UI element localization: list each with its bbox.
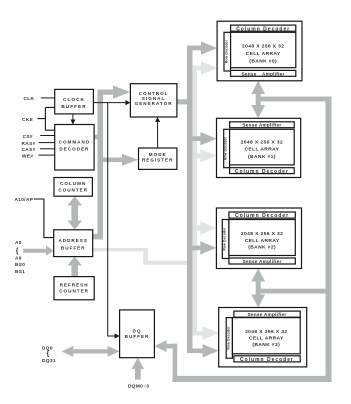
wire WE# input line [39, 155, 55, 156]
svg-text:Sense: Sense [242, 71, 257, 76]
svg-text:CLOCK: CLOCK [63, 97, 85, 102]
svg-text:RAS#: RAS# [22, 141, 36, 146]
svg-text:(BANK #2): (BANK #2) [248, 245, 276, 251]
wire bank0-bank1 junction to right bus [261, 97, 332, 102]
svg-text:CELL ARRAY: CELL ARRAY [246, 51, 281, 57]
clock buffer U1 [55, 89, 94, 114]
wire RAS# input line [39, 142, 55, 143]
bus right vertical [326, 97, 332, 382]
svg-text:2048 X 256 X 32: 2048 X 256 X 32 [241, 231, 283, 237]
arrow vertical double-headed between bank2 and bank3 sense amplifiers [251, 269, 265, 308]
bank1 outer box [217, 118, 301, 177]
svg-text:(BANK #0): (BANK #0) [249, 59, 277, 65]
mode register [139, 148, 177, 169]
svg-text:Row Decoder: Row Decoder [224, 136, 228, 160]
bank1 row decoder [224, 129, 230, 167]
control signal generator [130, 84, 177, 117]
arrow medium into bank0 row decoder [187, 41, 217, 54]
address buffer [54, 230, 93, 257]
arrow medium into bank2 row decoder [187, 241, 216, 254]
svg-text:A10/AP: A10/AP [15, 197, 34, 202]
svg-text:Column Decoder: Column Decoder [240, 357, 294, 363]
svg-text:DECODER: DECODER [59, 147, 89, 152]
svg-text:COUNTER: COUNTER [58, 188, 88, 193]
svg-text:Sense Amplifier: Sense Amplifier [242, 123, 281, 128]
wire clock branch down to dq buffer [107, 103, 108, 336]
svg-text:CELL ARRAY: CELL ARRAY [249, 336, 284, 342]
arrow medium into bank1 row decoder [187, 132, 217, 145]
arrow light into bank0 row decoder [193, 61, 218, 74]
svg-text:Column Decoder: Column Decoder [236, 26, 290, 32]
wire CLK input line [41, 97, 55, 98]
bank0 sense amplifier [231, 70, 296, 76]
bus central medium vertical [187, 46, 193, 354]
svg-text:REFRESH: REFRESH [60, 283, 89, 288]
bank3 cell array [232, 318, 300, 354]
svg-text:BS0: BS0 [15, 262, 25, 267]
bank2 sense amplifier [229, 258, 295, 264]
svg-text:Row Decoder: Row Decoder [226, 326, 230, 350]
svg-text:BS1: BS1 [15, 269, 25, 274]
arrow medium into bank3 row decoder [187, 344, 219, 357]
bank1 sense amplifier [230, 122, 295, 128]
svg-text:DQ: DQ [133, 328, 142, 333]
arrow light into bank1 row decoder [193, 149, 217, 162]
svg-text:CLK: CLK [24, 96, 35, 101]
arrow vertical double-headed between bank0 and bank1 sense amplifiers [251, 81, 265, 119]
arrow into mode register [98, 154, 139, 166]
bus light address path from address buffer to central bus [93, 248, 197, 265]
bank2 cell array [229, 220, 295, 256]
bank2 row decoder [222, 220, 229, 259]
dq buffer [120, 310, 155, 358]
svg-text:BUFFER: BUFFER [61, 104, 86, 109]
svg-text:2048 X 256 X 32: 2048 X 256 X 32 [242, 43, 284, 49]
svg-text:DQ31: DQ31 [42, 358, 56, 363]
bank1 column decoder [230, 168, 295, 175]
command decoder [55, 125, 94, 171]
svg-text:Row Decoder: Row Decoder [224, 39, 228, 63]
svg-text:CS#: CS# [23, 134, 33, 139]
bank3 sense amplifier [234, 311, 300, 317]
svg-text:Column Decoder: Column Decoder [235, 169, 289, 175]
column counter [54, 178, 92, 197]
svg-text:BUFFER: BUFFER [125, 334, 150, 339]
arrow into dq buffer right side [154, 340, 177, 352]
arrow horizontal double-headed DQ0-DQ31 to dq buffer [61, 346, 119, 357]
svg-text:BUFFER: BUFFER [61, 246, 86, 251]
svg-text:Sense Amplifier: Sense Amplifier [243, 259, 282, 264]
svg-text:(BANK #1): (BANK #1) [248, 154, 276, 160]
svg-text:Amplifier: Amplifier [262, 71, 285, 76]
svg-text:CAS#: CAS# [22, 147, 36, 152]
wire riser from bottom bus to dq buffer [173, 344, 178, 382]
bank0 cell array [231, 32, 296, 67]
svg-text:CELL ARRAY: CELL ARRAY [245, 238, 280, 244]
wire CAS# input line [40, 148, 55, 149]
svg-text:A9: A9 [15, 256, 22, 261]
arrow A0-A9 BS0 BS1 into address buffer [23, 246, 54, 256]
bank0 outer box [217, 21, 302, 81]
bank3 outer box [219, 308, 307, 367]
svg-text:COMMAND: COMMAND [59, 140, 91, 145]
arrow light into bank2 row decoder [193, 221, 217, 234]
refresh counter [54, 277, 94, 300]
wire A10/AP input line [34, 199, 54, 238]
bus light central vertical [193, 66, 198, 336]
svg-text:COLUMN: COLUMN [60, 181, 86, 186]
svg-text:Row Decoder: Row Decoder [223, 227, 227, 251]
svg-text:{: { [47, 351, 50, 358]
arrow vertical double-headed column counter to address buffer [67, 196, 82, 230]
arrow clock buffer to command decoder [70, 114, 75, 125]
bus left vertical connector [98, 90, 104, 240]
bank0 column decoder [231, 25, 296, 32]
wire left bus to address buffer [93, 234, 103, 240]
wire bank2-bank3 junction to right bus [261, 289, 332, 294]
bank1 cell array [230, 129, 295, 165]
arrow mode register to control signal generator [155, 117, 160, 148]
arrow clock line into dq buffer [107, 333, 119, 338]
wire command decoder to left bus [94, 135, 103, 140]
arrow refresh counter to address buffer [67, 257, 82, 277]
wire CKE input line [38, 107, 55, 130]
arrow light into bank3 row decoder [193, 326, 219, 339]
svg-text:A0: A0 [15, 240, 22, 245]
svg-text:WE#: WE# [22, 153, 33, 158]
wire control signal generator output to central bus [177, 99, 193, 104]
wire CS# input line [40, 135, 55, 136]
svg-text:COUNTER: COUNTER [59, 289, 89, 294]
svg-text:REGISTER: REGISTER [142, 157, 173, 162]
bank2 column decoder [229, 212, 295, 219]
bank0 row decoder [224, 32, 231, 71]
svg-text:Column Decoder: Column Decoder [235, 213, 289, 219]
svg-text:ADDRESS: ADDRESS [58, 238, 87, 243]
svg-text:GENERATOR: GENERATOR [135, 101, 173, 106]
bank3 column decoder [234, 356, 300, 363]
svg-text:CELL ARRAY: CELL ARRAY [245, 147, 280, 153]
svg-text:{: { [16, 248, 19, 255]
arrow clock buffer to control signal generator [93, 100, 130, 105]
svg-text:(BANK #3): (BANK #3) [252, 342, 280, 348]
svg-text:2048 X 256 X 32: 2048 X 256 X 32 [245, 329, 287, 335]
svg-text:Sense Amplifier: Sense Amplifier [247, 312, 286, 317]
svg-text:DQM0~3: DQM0~3 [128, 383, 149, 388]
svg-text:CKE: CKE [22, 117, 33, 122]
bus bottom horizontal [173, 376, 332, 382]
svg-text:2048 X 256 X 32: 2048 X 256 X 32 [241, 140, 283, 146]
arrow DQM0-3 into dq buffer bottom [132, 358, 145, 380]
bank3 row decoder [226, 318, 232, 359]
arrow from command decoder area into control signal generator [98, 85, 131, 98]
bank2 outer box [216, 208, 301, 269]
